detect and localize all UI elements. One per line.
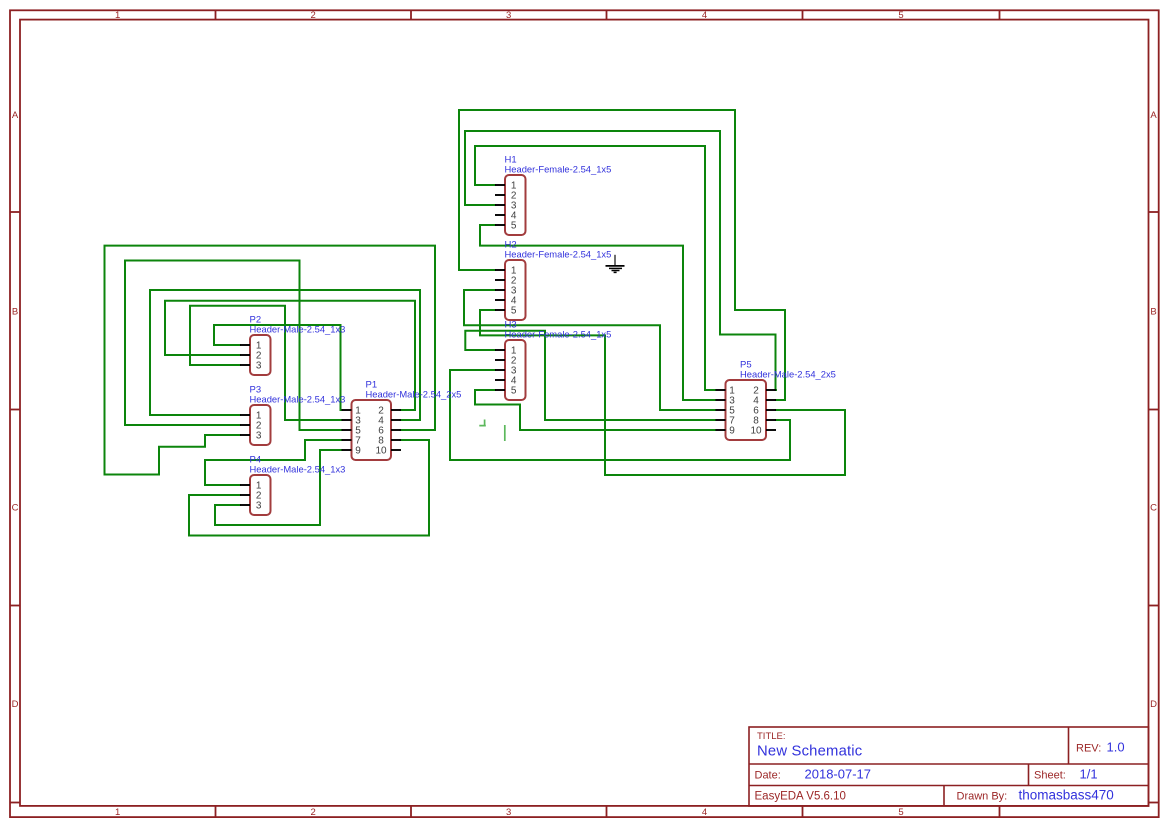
svg-text:5: 5: [511, 306, 517, 317]
wire net P3.1-P1.4: [150, 290, 420, 420]
pin 5 of H3: [495, 386, 517, 397]
pin 5 of P1: [342, 426, 362, 437]
ruler tick bottom x=215.5: [215, 806, 217, 817]
wire net H1.3-P5.2: [465, 131, 776, 390]
ground symbol GND: [606, 255, 625, 273]
ruler tick bottom x=606.5: [606, 806, 608, 817]
svg-text:D: D: [12, 699, 19, 710]
wire net H3.3-P5.8: [450, 370, 790, 460]
pin 1 of P5: [716, 386, 736, 397]
pin 7 of P1: [342, 436, 362, 447]
pin 1 of P2: [240, 341, 262, 352]
svg-text:Header-Male-2.54_1x3: Header-Male-2.54_1x3: [250, 463, 346, 474]
svg-text:D: D: [1150, 699, 1157, 710]
pin 3 of H2: [495, 286, 517, 297]
wire net H3.5-P5.9: [475, 390, 715, 430]
connector H3 (Header-Female-2.54_1x5): [505, 319, 612, 400]
pin 2 of P4: [240, 491, 262, 502]
svg-text:A: A: [12, 110, 19, 121]
pin 5 of H2: [495, 306, 517, 317]
pin 2 of P3: [240, 421, 262, 432]
connector H1 (Header-Female-2.54_1x5): [505, 154, 612, 235]
ruler tick left y=802.5: [10, 802, 20, 804]
svg-text:9: 9: [355, 446, 361, 457]
title block row divider 1: [749, 763, 1149, 765]
svg-text:3: 3: [256, 361, 262, 372]
wire net H2.5-P5.6: [480, 310, 845, 475]
svg-text:Header-Male-2.54_1x3: Header-Male-2.54_1x3: [250, 393, 346, 404]
svg-text:2: 2: [311, 807, 316, 818]
svg-text:EasyEDA V5.6.10: EasyEDA V5.6.10: [755, 791, 846, 803]
svg-text:Header-Male-2.54_2x5: Header-Male-2.54_2x5: [740, 368, 836, 379]
ruler tick top x=215.5: [215, 10, 217, 19]
svg-text:3: 3: [256, 501, 262, 512]
wire net H1.1-P5.1: [475, 146, 715, 390]
svg-text:5: 5: [898, 807, 903, 818]
pin 7 of P5: [716, 416, 736, 427]
title block Sheet divider: [1028, 764, 1030, 786]
wire net P4.1-P1.7: [205, 440, 342, 485]
wire net P4.3-P1.9: [215, 450, 342, 525]
svg-text:B: B: [12, 307, 18, 318]
title block outline: [749, 727, 1149, 806]
svg-text:Header-Female-2.54_1x5: Header-Female-2.54_1x5: [505, 328, 612, 339]
svg-text:2018-07-17: 2018-07-17: [805, 767, 872, 782]
svg-text:TITLE:: TITLE:: [757, 731, 786, 742]
pin 6 of P1: [378, 426, 401, 437]
title block DrawnBy divider: [943, 786, 945, 807]
pin 2 of H3: [495, 356, 517, 367]
pin 3 of P1: [342, 416, 362, 427]
svg-text:B: B: [1150, 307, 1156, 318]
svg-text:10: 10: [375, 446, 387, 457]
ruler tick right y=802.5: [1149, 802, 1159, 804]
ruler tick right y=605.5: [1149, 605, 1159, 607]
pin 4 of P1: [378, 416, 401, 427]
pin 2 of H2: [495, 276, 517, 287]
pin 3 of H1: [495, 201, 517, 212]
ruler tick bottom x=411: [410, 806, 412, 817]
ruler tick right y=212: [1149, 211, 1159, 213]
svg-text:Header-Female-2.54_1x5: Header-Female-2.54_1x5: [505, 163, 612, 174]
pin 6 of P5: [753, 406, 776, 417]
svg-text:3: 3: [506, 807, 511, 818]
wire net H1.5-P5.3: [480, 225, 715, 400]
ruler tick top x=606.5: [606, 10, 608, 19]
wire net P4.2-P1.8: [189, 440, 429, 536]
connector P5 (Header-Male-2.54_2x5): [726, 359, 836, 440]
svg-text:New Schematic: New Schematic: [757, 744, 863, 760]
wire stub fragment (short vertical below H3): [504, 425, 506, 441]
svg-text:REV:: REV:: [1076, 743, 1101, 755]
ruler tick top x=411: [410, 10, 412, 19]
wire net P2.1-P1.1: [214, 325, 342, 410]
svg-text:3: 3: [506, 10, 511, 21]
ruler tick bottom x=999.5: [999, 806, 1001, 817]
connector H2 (Header-Female-2.54_1x5): [505, 239, 612, 320]
pin 2 of H1: [495, 191, 517, 202]
svg-text:A: A: [1150, 110, 1157, 121]
svg-text:Header-Male-2.54_1x3: Header-Male-2.54_1x3: [250, 323, 346, 334]
pin 4 of P5: [753, 396, 776, 407]
pin 1 of P3: [240, 411, 262, 422]
svg-text:1/1: 1/1: [1080, 767, 1098, 782]
svg-text:1.0: 1.0: [1107, 740, 1125, 755]
svg-text:4: 4: [702, 10, 707, 21]
svg-text:Header-Female-2.54_1x5: Header-Female-2.54_1x5: [505, 248, 612, 259]
wire stub fragment (small L near H3): [479, 420, 486, 426]
pin 9 of P5: [716, 426, 736, 437]
connector P4 (Header-Male-2.54_1x3): [250, 454, 346, 515]
svg-text:1: 1: [115, 10, 120, 21]
svg-text:3: 3: [256, 431, 262, 442]
svg-text:1: 1: [115, 807, 120, 818]
ruler tick left y=212: [10, 211, 20, 213]
pin 5 of P5: [716, 406, 736, 417]
pin 4 of H3: [495, 376, 517, 387]
pin 9 of P1: [342, 446, 362, 457]
connector P2 (Header-Male-2.54_1x3): [250, 314, 346, 375]
svg-text:9: 9: [729, 426, 735, 437]
svg-text:Sheet:: Sheet:: [1034, 770, 1066, 782]
pin 3 of P3: [240, 431, 262, 442]
pin 8 of P5: [753, 416, 776, 427]
pin 2 of P1: [378, 406, 401, 417]
wire net H2.1-P5.4: [459, 110, 785, 400]
wire net H2.3-P5.5: [464, 290, 715, 410]
pin 1 of P4: [240, 481, 262, 492]
wire net P3.2-P1.5: [125, 261, 342, 431]
title block row divider 2: [749, 785, 1149, 787]
svg-text:2: 2: [311, 10, 316, 21]
wire net P3.3-P1.6: [105, 246, 436, 475]
svg-text:5: 5: [898, 10, 903, 21]
pin 1 of P1: [342, 406, 362, 417]
pin 1 of H3: [495, 346, 517, 357]
pin 4 of H1: [495, 211, 517, 222]
svg-text:Date:: Date:: [755, 770, 781, 782]
svg-text:10: 10: [750, 426, 762, 437]
connector P3 (Header-Male-2.54_1x3): [250, 384, 346, 445]
pin 10 of P1: [375, 446, 401, 457]
pin 8 of P1: [378, 436, 401, 447]
connector P1 (Header-Male-2.54_2x5): [352, 379, 462, 460]
svg-text:5: 5: [511, 221, 517, 232]
ruler tick top x=802.5: [802, 10, 804, 19]
pin 3 of H3: [495, 366, 517, 377]
pin 4 of H2: [495, 296, 517, 307]
pin 10 of P5: [750, 426, 776, 437]
wire net P2.2-P1.2: [165, 301, 415, 410]
wire net H3.1-P5.7: [465, 331, 715, 420]
pin 1 of H1: [495, 181, 517, 192]
svg-text:Header-Male-2.54_2x5: Header-Male-2.54_2x5: [366, 388, 462, 399]
pin 3 of P5: [716, 396, 736, 407]
svg-text:5: 5: [511, 386, 517, 397]
svg-text:Drawn By:: Drawn By:: [957, 791, 1008, 803]
ruler tick left y=605.5: [10, 605, 20, 607]
ruler tick right y=409.5: [1149, 409, 1159, 411]
pin 3 of P4: [240, 501, 262, 512]
ruler tick left y=409.5: [10, 409, 20, 411]
pin 3 of P2: [240, 361, 262, 372]
wire net P2.3-P1.3: [190, 306, 342, 420]
svg-text:C: C: [12, 503, 19, 514]
pin 2 of P2: [240, 351, 262, 362]
pin 5 of H1: [495, 221, 517, 232]
pin 2 of P5: [753, 386, 776, 397]
svg-text:C: C: [1150, 503, 1157, 514]
ruler tick top x=999.5: [999, 10, 1001, 19]
svg-text:4: 4: [702, 807, 707, 818]
svg-text:thomasbass470: thomasbass470: [1019, 788, 1114, 803]
title block REV divider: [1068, 727, 1070, 764]
pin 1 of H2: [495, 266, 517, 277]
ruler tick bottom x=802.5: [802, 806, 804, 817]
